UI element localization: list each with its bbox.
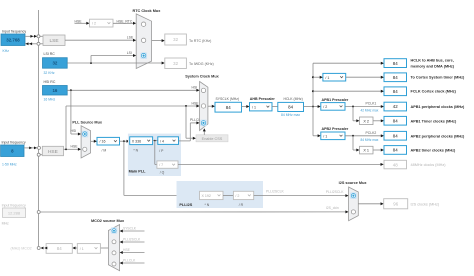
svg-text:SYSCLK: SYSCLK	[123, 227, 137, 231]
wire X2 to APB1 timer box	[373, 119, 384, 122]
svg-text:PCLK2: PCLK2	[366, 131, 377, 135]
wire LSE to RTC mux	[65, 36, 136, 42]
PCLK1 label	[366, 102, 377, 106]
svg-text:To Cortex System timer (MHz): To Cortex System timer (MHz)	[411, 76, 465, 80]
svg-text:HSE: HSE	[123, 248, 131, 252]
PLL source mux	[81, 126, 91, 158]
svg-text:16 MHz: 16 MHz	[44, 97, 56, 101]
To RTC value box	[165, 34, 187, 45]
APB2 timer label	[411, 149, 456, 153]
wire FCLK row	[313, 90, 384, 93]
Main PLL panel	[128, 134, 181, 176]
svg-text:Input frequency: Input frequency	[2, 30, 26, 34]
svg-text:84: 84	[288, 105, 293, 110]
PCLK2 label	[366, 131, 377, 135]
MCO2 source mux	[108, 225, 119, 271]
LSE KHz unit label	[3, 49, 10, 53]
APB1 Prescaler label	[322, 98, 349, 102]
svg-text:32: 32	[173, 37, 178, 42]
svg-text:84: 84	[393, 148, 398, 153]
HSE 1-50 MHz label	[2, 162, 17, 166]
wire I2S mux to I2S clocks box	[358, 202, 383, 205]
svg-text:APB2 peripheral clocks (MHz): APB2 peripheral clocks (MHz)	[411, 134, 466, 138]
system clock mux	[200, 82, 208, 131]
svg-text:12.288: 12.288	[8, 210, 21, 215]
HCLK to AHB value box 84	[384, 59, 407, 68]
wire LSE osc-in with arrows	[25, 35, 43, 38]
svg-text:84 MHz max: 84 MHz max	[361, 138, 379, 142]
Cortex prescaler /1	[323, 73, 346, 81]
PCLK1 42 MHz max label	[361, 109, 379, 113]
svg-text:To IWDG (KHz): To IWDG (KHz)	[189, 62, 214, 66]
wire PLLCLK to system mux	[179, 121, 200, 140]
svg-text:/ 2: / 2	[235, 194, 239, 198]
wire RTC mux to RTC box	[152, 39, 165, 42]
svg-text:RTC Clock Mux: RTC Clock Mux	[132, 9, 161, 13]
svg-text:MHz: MHz	[2, 221, 9, 225]
To IWDG value box	[165, 58, 187, 69]
HSE input frequency box 8	[1, 145, 24, 157]
port OSC32_IN	[37, 35, 40, 38]
RTC Clock Mux title	[132, 9, 161, 13]
svg-text:HSI: HSI	[71, 129, 77, 133]
node PLLCLK label	[190, 118, 203, 122]
svg-text:APB1 Timer clocks (MHz): APB1 Timer clocks (MHz)	[411, 119, 457, 123]
svg-text:PLLI2S: PLLI2S	[179, 203, 192, 207]
svg-text:APB2 timer clocks (MHz): APB2 timer clocks (MHz)	[411, 149, 456, 153]
FCLK label	[411, 90, 457, 94]
svg-text:48MHz clocks (MHz): 48MHz clocks (MHz)	[411, 163, 447, 167]
wire HSE_RTC to RTC mux	[113, 19, 136, 25]
svg-text:memory and DMA (MHz): memory and DMA (MHz)	[411, 64, 455, 68]
wire HCLK to AHB bus row	[313, 62, 384, 65]
SYSCLK value box 84	[215, 102, 242, 112]
wire N to R	[223, 194, 233, 196]
svg-text:I2S source Mux: I2S source Mux	[339, 181, 368, 185]
svg-text:/ Q: / Q	[160, 171, 165, 175]
HCLK 84 MHz max label	[281, 113, 300, 117]
wire LSI to IWDG and RTC mux	[67, 51, 165, 65]
svg-text:42: 42	[393, 104, 398, 109]
PLLI2S *N label	[205, 203, 210, 207]
svg-text:84: 84	[226, 105, 231, 110]
HCLK label	[284, 97, 303, 101]
svg-text:Input frequency: Input frequency	[2, 203, 26, 207]
APB2 timer value box 84	[384, 146, 407, 155]
wire to APB2 prescaler	[313, 134, 321, 137]
Cortex timer label	[411, 76, 465, 80]
APB1 peripheral value box 42	[384, 102, 407, 111]
wire LSE osc-out with arrows	[25, 42, 43, 45]
I2S ext input frequency label	[2, 203, 26, 207]
svg-text:84: 84	[393, 118, 398, 123]
LSI RC label	[44, 52, 56, 56]
PLLI2S label	[179, 203, 192, 207]
svg-text:/ 2: / 2	[323, 105, 327, 109]
node PLLI2SCLK mux label	[326, 190, 344, 194]
port MCO2	[37, 247, 40, 250]
wire CSS to mux	[203, 128, 206, 135]
node PLLI2SCLK stub	[120, 238, 145, 244]
wire /M to X336 and PLLI2S	[120, 140, 200, 197]
HSI RC label	[44, 80, 56, 84]
wire AHB to HCLK box	[272, 106, 278, 108]
APB2 Prescaler label	[322, 127, 349, 131]
HSE stub to RTC divider	[75, 19, 90, 25]
svg-text:HSI: HSI	[192, 86, 198, 90]
svg-text:Main PLL: Main PLL	[129, 170, 147, 174]
wire to cortex prescaler	[313, 76, 323, 79]
APB2 prescaler /1	[321, 132, 345, 140]
svg-text:/ M: / M	[102, 148, 107, 152]
HSI RC box 16	[43, 86, 68, 96]
chip boundary rail	[38, 10, 40, 250]
Cortex timer value box 84	[384, 73, 407, 82]
svg-text:96: 96	[393, 202, 398, 207]
svg-text:MCO2 source Mux: MCO2 source Mux	[91, 219, 125, 223]
svg-text:84 MHz max: 84 MHz max	[281, 113, 300, 117]
multiplier PLLI2S *N X192	[200, 191, 224, 199]
I2S clock mux	[349, 187, 359, 221]
PLLI2S /R label	[239, 203, 244, 207]
PLLI2S panel	[177, 181, 264, 208]
48MHz label	[411, 163, 447, 167]
svg-text:HSI RC: HSI RC	[44, 80, 56, 84]
wire HSI to system mux and PLL mux	[67, 89, 199, 136]
To RTC label	[189, 39, 211, 43]
MCO2 pin label	[11, 247, 32, 251]
APB2 peripheral value box 84	[384, 131, 407, 140]
svg-text:X 1: X 1	[363, 149, 369, 153]
svg-text:1-50 MHz: 1-50 MHz	[2, 162, 17, 166]
svg-text:PCLK1: PCLK1	[366, 102, 377, 106]
wire MCO2 value to pin with arrows	[41, 247, 48, 250]
port OSC32_OUT	[37, 42, 40, 45]
/P label	[159, 149, 164, 153]
svg-text:/ 7: / 7	[159, 163, 163, 167]
svg-text:Input frequency: Input frequency	[2, 141, 26, 145]
node HSE stub	[120, 248, 145, 254]
svg-text:APB1 Prescaler: APB1 Prescaler	[322, 98, 349, 102]
APB1 timer label	[411, 119, 457, 123]
svg-text:* N: * N	[133, 149, 138, 153]
svg-text:/ 4: / 4	[160, 139, 164, 143]
HSE oscillator box	[42, 146, 63, 155]
svg-text:* N: * N	[205, 203, 210, 207]
svg-text:HSE: HSE	[75, 19, 83, 23]
HSE input frequency label	[2, 141, 26, 145]
multiplier *N X336	[130, 137, 153, 145]
/Q label	[160, 171, 165, 175]
wire SYSCLK to AHB prescaler	[242, 105, 250, 108]
svg-text:84: 84	[393, 89, 398, 94]
svg-text:32.768: 32.768	[6, 38, 20, 43]
svg-text:/ 1: / 1	[323, 134, 327, 138]
PLL Source Mux title	[72, 120, 103, 124]
svg-text:PLLCLK: PLLCLK	[123, 259, 136, 263]
APB1 timer value box 84	[384, 116, 407, 125]
I2S clocks value box	[384, 199, 408, 209]
svg-text:FCLK Cortex clock (MHz): FCLK Cortex clock (MHz)	[411, 90, 457, 94]
svg-text:PLL Source Mux: PLL Source Mux	[72, 120, 103, 124]
svg-text:32: 32	[52, 61, 57, 66]
svg-text:/ P: / P	[159, 149, 164, 153]
I2S clocks label	[411, 202, 440, 206]
svg-text:32 KHz: 32 KHz	[44, 71, 55, 75]
FCLK value box 84	[384, 87, 407, 96]
svg-text:(MHz) MCO2: (MHz) MCO2	[11, 247, 32, 251]
wire sysmux to SYSCLK box	[208, 105, 215, 108]
wire /Q to 48MHz clocks	[178, 163, 384, 166]
Enable CSS button	[196, 135, 228, 142]
LSE input frequency box 32.768	[1, 34, 25, 46]
wire PLLI2SCLK to I2S mux	[254, 190, 349, 198]
svg-text:X 2: X 2	[363, 119, 369, 123]
svg-text:APB1 peripheral clocks (MHz): APB1 peripheral clocks (MHz)	[411, 105, 466, 109]
AHB Prescaler label	[250, 97, 276, 101]
MCO2 divider /1	[77, 244, 100, 254]
PCLK2 84 MHz max label	[361, 138, 379, 142]
divider /2 HSE_RTC	[90, 19, 114, 27]
svg-text:84: 84	[57, 246, 62, 251]
svg-text:/ 16: / 16	[100, 140, 106, 144]
node HSE sys label	[192, 101, 200, 105]
wire PCLK1 row	[345, 105, 384, 122]
svg-text:HSE_RTC: HSE_RTC	[117, 19, 133, 23]
APB1 prescaler /2	[321, 103, 345, 111]
AHB prescaler /1	[250, 103, 273, 111]
svg-text:PLLI2SCLK: PLLI2SCLK	[326, 190, 344, 194]
port OSC_IN	[38, 146, 41, 149]
LSI 32 KHz label	[44, 71, 55, 75]
MCO2 source Mux title	[91, 219, 125, 223]
wire cortex timer row	[346, 76, 384, 79]
SYSCLK label	[216, 97, 240, 101]
svg-text:PLLI2SCLK: PLLI2SCLK	[123, 238, 141, 242]
I2S source Mux title	[339, 181, 368, 185]
multiplier X1	[360, 146, 374, 154]
divider /P /4	[158, 137, 179, 145]
LSE oscillator box	[43, 35, 65, 46]
svg-text:System Clock Mux: System Clock Mux	[185, 74, 219, 78]
/M label	[102, 148, 107, 152]
svg-text:32: 32	[173, 61, 178, 66]
svg-text:LSI RC: LSI RC	[44, 52, 56, 56]
svg-text:HSE: HSE	[71, 145, 79, 149]
wire I2S_CKIN external	[37, 210, 348, 213]
divider PLLI2S /R /2	[233, 191, 253, 199]
APB1 peripheral label	[411, 105, 466, 109]
*N label	[133, 149, 138, 153]
wire PLL mux to /M	[91, 140, 97, 143]
I2S ext input frequency box 12.288	[3, 208, 26, 217]
svg-text:APB2 Prescaler: APB2 Prescaler	[322, 127, 349, 131]
svg-text:42 MHz max: 42 MHz max	[361, 109, 379, 113]
node SYSCLK stub	[120, 227, 145, 233]
svg-text:HCLK (MHz): HCLK (MHz)	[284, 97, 303, 101]
svg-text:84: 84	[393, 75, 398, 80]
node PLLCLK stub	[120, 259, 145, 265]
svg-text:HSE: HSE	[192, 101, 200, 105]
APB2 peripheral label	[411, 134, 466, 138]
svg-text:KHz: KHz	[3, 49, 10, 53]
wire PCLK2 row	[345, 134, 384, 151]
svg-text:HSE: HSE	[48, 149, 58, 155]
HCLK to AHB label	[411, 58, 455, 68]
port OSC_OUT	[37, 153, 42, 156]
svg-text:SYSCLK (MHz): SYSCLK (MHz)	[216, 97, 240, 101]
node I2S_ckin label	[326, 206, 339, 210]
svg-text:X 336: X 336	[132, 139, 141, 143]
I2S ext MHz label	[2, 221, 9, 225]
RTC clock mux	[136, 14, 151, 69]
divider /Q /7	[157, 161, 178, 168]
svg-text:I2S clocks (MHz): I2S clocks (MHz)	[411, 202, 440, 206]
wire MCO2 mux to divider	[100, 247, 108, 249]
svg-text:LSE: LSE	[127, 36, 134, 40]
wire HSE osc-in with arrows	[24, 147, 37, 150]
svg-text:PLLI2SCLK: PLLI2SCLK	[266, 190, 284, 194]
svg-text:I2S_ckin: I2S_ckin	[326, 206, 339, 210]
HCLK value box 84	[278, 102, 304, 111]
node HSI pll label	[71, 129, 77, 133]
Main PLL label	[129, 170, 147, 174]
wire N to P and Q	[153, 140, 158, 165]
svg-text:To RTC (KHz): To RTC (KHz)	[189, 39, 211, 43]
System Clock Mux title	[185, 74, 219, 78]
svg-text:HCLK to AHB bus, core,: HCLK to AHB bus, core,	[411, 58, 454, 62]
LSE input frequency label	[2, 30, 26, 34]
multiplier X2	[360, 117, 374, 125]
svg-text:/ 1: / 1	[80, 247, 84, 251]
svg-text:84: 84	[393, 61, 398, 66]
svg-text:LSE: LSE	[49, 38, 58, 44]
svg-text:/ R: / R	[239, 203, 244, 207]
wire divider to MCO2 value	[72, 247, 77, 250]
svg-text:X 192: X 192	[202, 194, 211, 198]
wire HCLK distribution	[304, 63, 321, 136]
svg-text:84: 84	[393, 133, 398, 138]
node HSE pll label	[71, 145, 79, 149]
svg-text:16: 16	[52, 88, 57, 93]
svg-text:AHB Prescaler: AHB Prescaler	[250, 97, 276, 101]
svg-text:/ 1: / 1	[325, 76, 329, 80]
wire X1 to APB2 timer box	[373, 149, 384, 152]
To IWDG label	[189, 62, 214, 66]
svg-text:/ 2: / 2	[92, 22, 96, 26]
MCO2 value box 84	[46, 244, 72, 254]
wire HSE to PLL mux and system mux and CSS	[64, 105, 200, 151]
divider /M /16	[97, 137, 120, 145]
48MHz value box	[384, 160, 407, 169]
svg-text:48: 48	[393, 162, 398, 167]
node HSI sys label	[192, 86, 198, 90]
svg-text:Enable CSS: Enable CSS	[202, 137, 223, 141]
svg-text:/ 1: / 1	[252, 105, 256, 109]
HSI 16 MHz label	[44, 97, 56, 101]
svg-text:LSI: LSI	[127, 51, 132, 55]
LSI RC box 32	[43, 58, 68, 68]
